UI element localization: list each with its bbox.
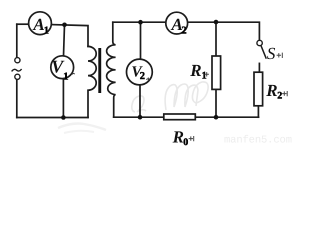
resistor R2 [254,72,263,106]
wire: V1 bottom branch [62,79,64,118]
svg-text:R: R [189,61,201,80]
wire: V1 top branch [64,25,65,56]
wire: primary top rail A1 to corner and down to coil [51,25,88,47]
wire: R2 bottom lead [257,107,259,117]
wire: switch lower stub to R2 [258,63,260,71]
switch S terminal [257,40,262,45]
wire: R1 bottom branch [215,90,217,117]
svg-text:1: 1 [44,25,49,36]
junction node: V1 bottom [61,115,66,120]
junction node: A1-V1 top [62,23,67,28]
AC source terminal upper [15,58,20,63]
voltmeter V2 [126,59,152,85]
svg-text:0: 0 [183,137,188,148]
svg-text:R: R [265,81,277,100]
wire: secondary top rail to A2 [113,21,166,23]
wire: AC lower lead [16,80,18,118]
artifact mark near V2 [146,78,149,81]
ammeter A1 [29,12,52,35]
primary coil L1 [88,46,96,117]
svg-text:manfen5.com: manfen5.com [224,135,292,147]
junction node: V2 top [138,20,143,25]
voltmeter V1 [51,56,74,79]
svg-text:R: R [172,127,184,146]
svg-text:1: 1 [202,70,207,81]
transformer core [98,48,101,93]
AC tilde [12,69,22,71]
wire: top-left vertical down to AC terminal [16,24,18,57]
transformer secondary coil L2 [107,22,116,117]
svg-text:2: 2 [181,25,186,36]
switch S blade [261,46,266,58]
wire: V2 top branch [140,22,142,60]
AC source terminal lower [15,74,20,79]
wire: R1 top branch [215,22,217,55]
ammeter A2 [166,12,188,34]
svg-text:S: S [267,44,276,63]
svg-text:1: 1 [63,72,68,83]
watermark logo faint [58,82,208,133]
junction node: R1 top [214,20,219,25]
artifact mark near V1 [72,73,75,74]
svg-text:2: 2 [277,90,282,101]
wire: secondary top rail A2 to switch corner [188,22,260,40]
wire: primary top rail left segment [17,23,31,25]
junction node: V2 bottom [138,115,143,120]
wire: secondary bottom rail [114,116,259,118]
junction node: R1 bottom [214,115,219,120]
wire: primary bottom rail [17,117,88,119]
svg-text:2: 2 [140,71,145,82]
wire: V2 bottom branch [139,84,141,117]
resistor R0 [164,114,196,120]
resistor R1 [212,56,221,89]
